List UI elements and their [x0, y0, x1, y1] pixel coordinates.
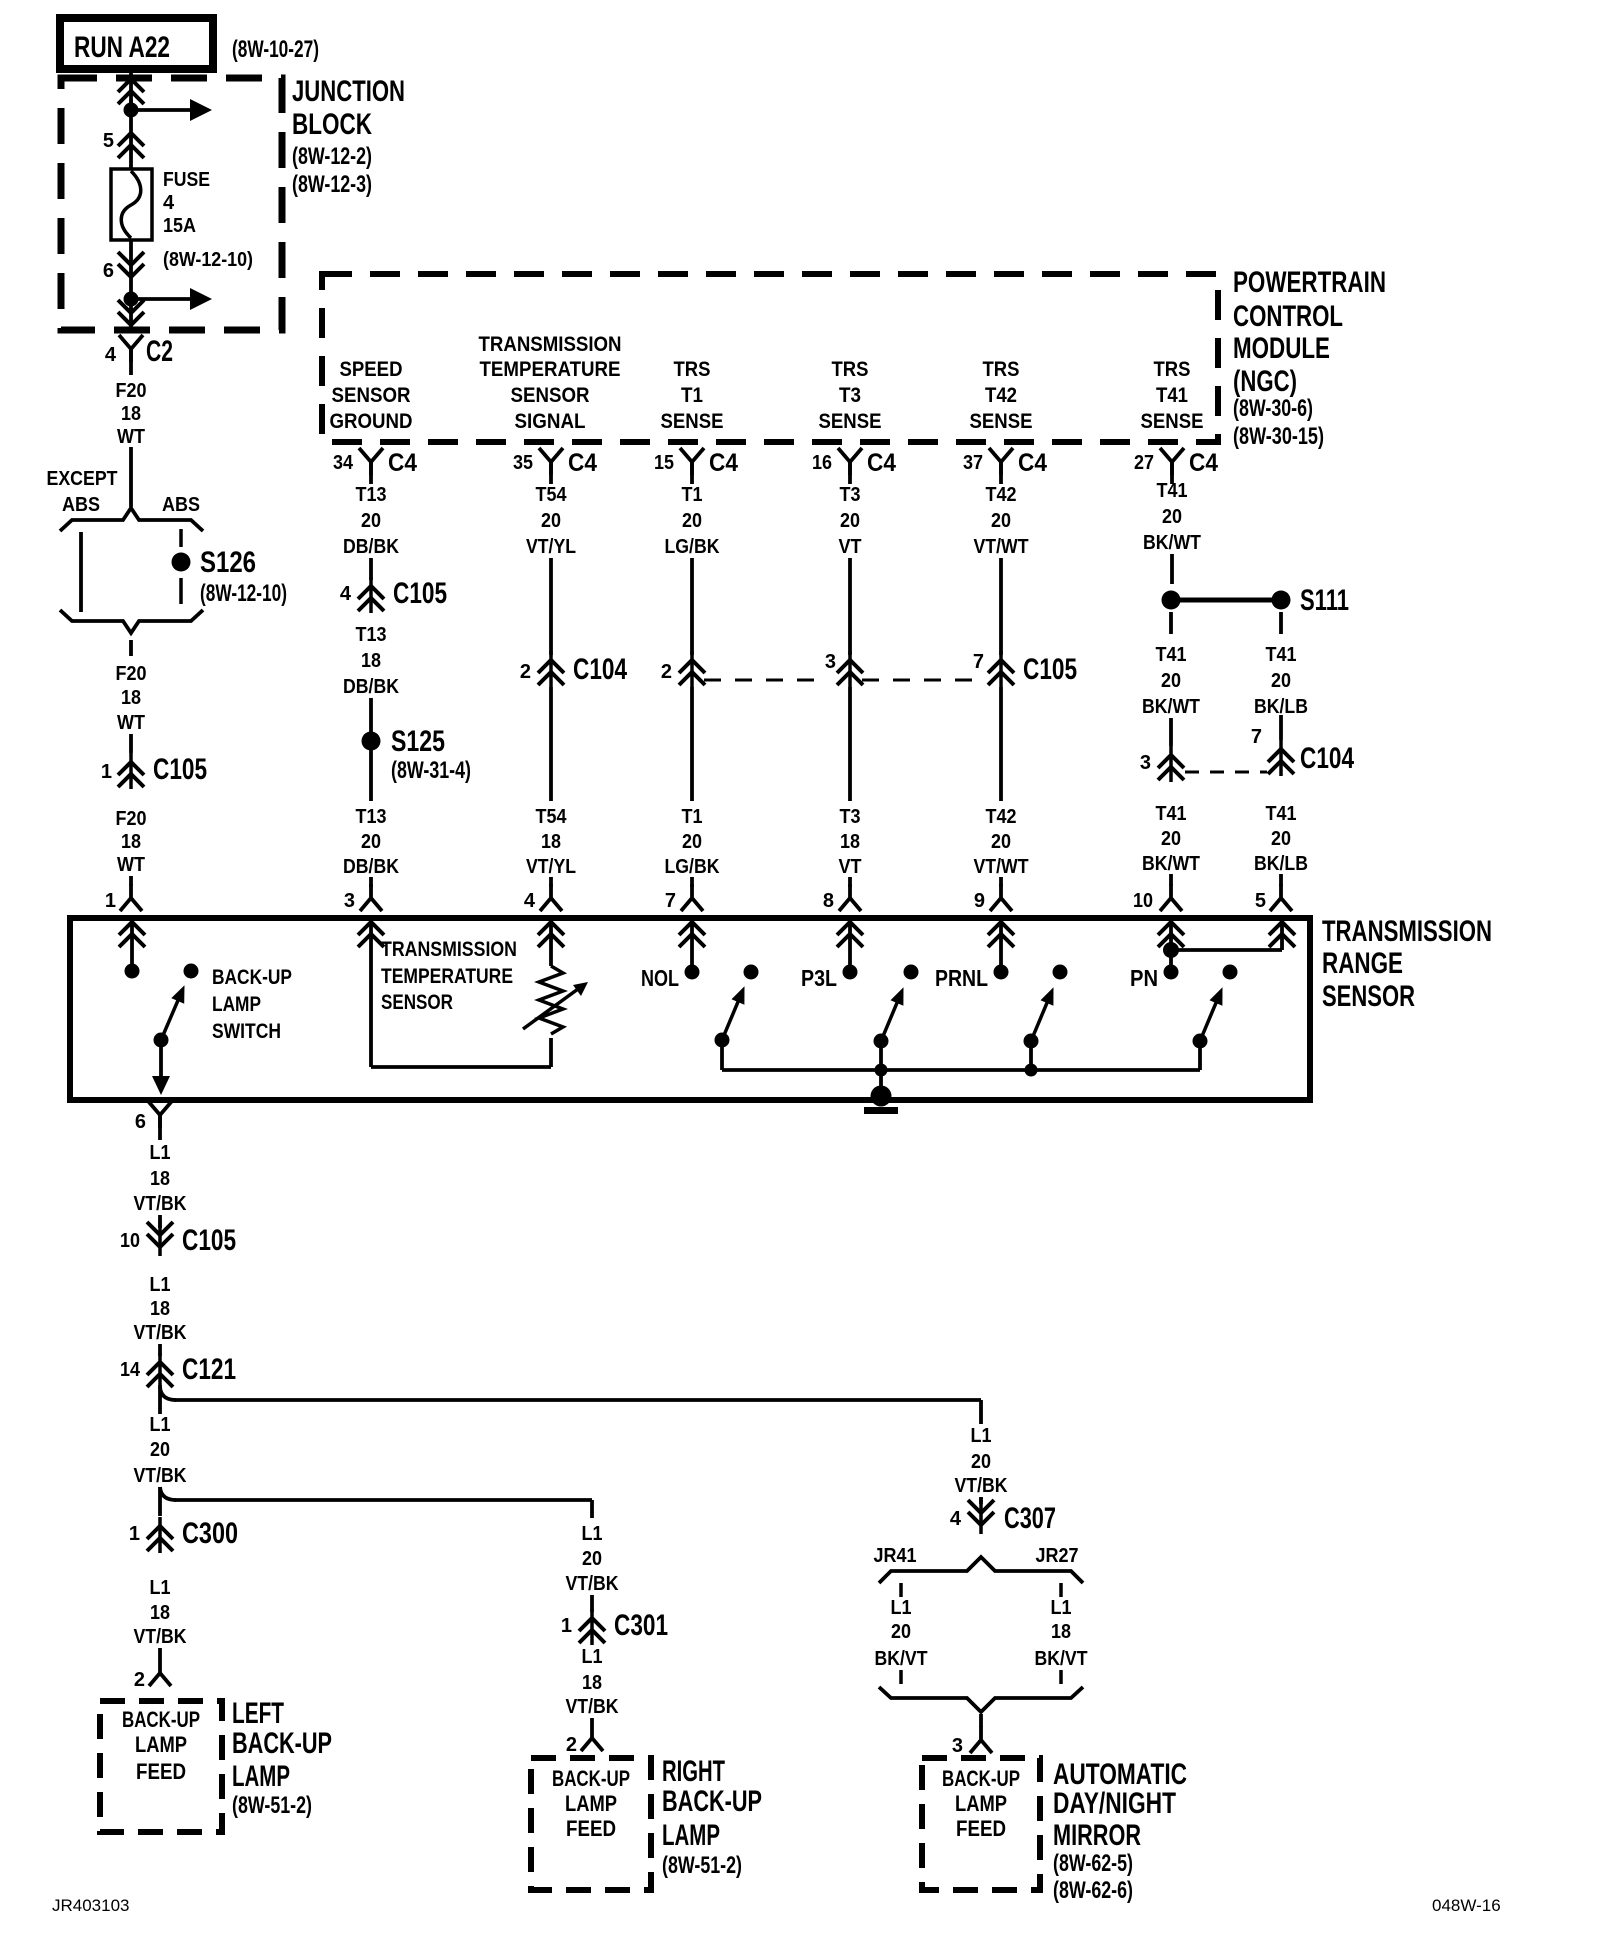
svg-text:VT/BK: VT/BK — [566, 1573, 619, 1595]
svg-text:C4: C4 — [1018, 449, 1047, 477]
svg-text:VT/BK: VT/BK — [134, 1626, 187, 1648]
svg-text:VT: VT — [839, 856, 862, 878]
svg-text:20: 20 — [582, 1548, 602, 1570]
svg-text:F20: F20 — [116, 808, 147, 830]
pin 3 chevrons inside — [358, 922, 384, 947]
svg-text:TRANSMISSION: TRANSMISSION — [1322, 915, 1492, 948]
svg-text:8: 8 — [823, 890, 834, 912]
svg-text:4: 4 — [163, 192, 175, 214]
svg-text:T1: T1 — [681, 384, 703, 407]
svg-text:S126: S126 — [200, 546, 256, 579]
node rail junction 2 — [1025, 1064, 1038, 1077]
svg-text:C4: C4 — [709, 449, 738, 477]
wire JR27 dashed — [1059, 1583, 1063, 1597]
svg-text:7: 7 — [665, 890, 676, 912]
dashed connector link C104 row — [1185, 771, 1267, 774]
svg-text:(8W-12-10): (8W-12-10) — [200, 580, 287, 607]
svg-text:(8W-31-4): (8W-31-4) — [391, 757, 471, 784]
svg-text:JR41: JR41 — [874, 1545, 917, 1567]
svg-text:TRS: TRS — [983, 358, 1020, 381]
node back-up lamp switch contact — [125, 964, 140, 979]
svg-text:C4: C4 — [867, 449, 896, 477]
wire except-abs branch — [79, 532, 83, 612]
node bus junction top — [124, 103, 139, 118]
svg-text:3: 3 — [344, 890, 355, 912]
svg-text:9: 9 — [974, 890, 985, 912]
svg-text:TEMPERATURE: TEMPERATURE — [480, 358, 621, 381]
svg-text:(8W-12-2): (8W-12-2) — [292, 143, 372, 170]
svg-text:5: 5 — [1255, 890, 1266, 912]
svg-text:T54: T54 — [536, 806, 568, 828]
svg-text:SENSOR: SENSOR — [381, 991, 453, 1014]
svg-text:20: 20 — [1161, 670, 1181, 692]
svg-text:L1: L1 — [150, 1577, 171, 1599]
svg-text:20: 20 — [1162, 506, 1182, 528]
powertrain control module dashed box — [322, 274, 1218, 442]
pin 10 chevrons inside — [1158, 922, 1184, 947]
node PN branch junction — [1163, 942, 1179, 958]
splice S111 — [1162, 591, 1181, 610]
svg-text:C307: C307 — [1004, 1502, 1056, 1535]
wire down from C121 — [158, 1385, 162, 1414]
svg-text:C105: C105 — [1023, 653, 1077, 686]
split brace JR41/JR27 — [879, 1557, 1083, 1583]
svg-text:FEED: FEED — [566, 1816, 616, 1841]
svg-text:BK/VT: BK/VT — [875, 1648, 928, 1670]
svg-text:SENSE: SENSE — [661, 410, 724, 433]
svg-text:DB/BK: DB/BK — [343, 676, 399, 698]
svg-text:VT/YL: VT/YL — [526, 536, 576, 558]
wire JR41 dashed — [899, 1583, 903, 1597]
svg-text:CONTROL: CONTROL — [1233, 300, 1343, 333]
svg-text:1: 1 — [129, 1523, 140, 1545]
svg-text:C105: C105 — [182, 1224, 236, 1257]
svg-text:15: 15 — [654, 452, 674, 474]
svg-text:20: 20 — [361, 510, 381, 532]
wire corner into C301 column — [590, 1500, 594, 1518]
svg-text:5: 5 — [103, 130, 114, 152]
svg-text:VT/BK: VT/BK — [134, 1465, 187, 1487]
svg-text:P3L: P3L — [801, 965, 837, 991]
svg-text:T41: T41 — [1266, 803, 1297, 825]
svg-text:2: 2 — [134, 1669, 145, 1691]
merge brace — [60, 610, 203, 633]
switch PRNL — [1053, 965, 1068, 980]
svg-text:LAMP: LAMP — [135, 1732, 187, 1757]
wire JR27 dashed 2 — [1059, 1670, 1063, 1684]
svg-text:18: 18 — [582, 1672, 602, 1694]
svg-text:L1: L1 — [150, 1414, 171, 1436]
svg-text:GROUND: GROUND — [330, 410, 413, 433]
svg-text:T41: T41 — [1156, 384, 1188, 407]
junction block dashed box — [61, 78, 282, 330]
svg-text:WT: WT — [117, 712, 145, 734]
svg-text:SENSOR: SENSOR — [511, 384, 590, 407]
node PRNL contact — [994, 965, 1009, 980]
svg-text:T41: T41 — [1156, 803, 1187, 825]
svg-text:T13: T13 — [356, 484, 387, 506]
svg-text:BK/VT: BK/VT — [1035, 1648, 1088, 1670]
pin 5 arrow up into bus — [118, 79, 144, 104]
svg-text:TEMPERATURE: TEMPERATURE — [381, 965, 513, 988]
svg-text:C301: C301 — [614, 1609, 668, 1642]
svg-text:L1: L1 — [582, 1523, 603, 1545]
svg-text:LAMP: LAMP — [662, 1819, 720, 1852]
svg-text:SENSOR: SENSOR — [332, 384, 411, 407]
transmission range sensor box — [70, 918, 1310, 1100]
ground — [879, 1070, 883, 1097]
svg-text:FUSE: FUSE — [163, 169, 210, 191]
svg-text:T42: T42 — [985, 384, 1017, 407]
switch common rail — [722, 1068, 1200, 1072]
wire below merge — [129, 640, 133, 656]
wire branch to pin 5 — [1171, 948, 1282, 952]
svg-text:T42: T42 — [986, 484, 1017, 506]
svg-text:14: 14 — [120, 1359, 141, 1381]
svg-text:C104: C104 — [573, 653, 627, 686]
pin 1 chevrons inside — [119, 922, 145, 947]
svg-text:(8W-51-2): (8W-51-2) — [662, 1852, 742, 1879]
svg-text:T3: T3 — [839, 384, 861, 407]
svg-text:20: 20 — [991, 510, 1011, 532]
left back-up lamp feed dashed box — [100, 1701, 222, 1832]
svg-text:JR403103: JR403103 — [52, 1896, 130, 1915]
svg-text:FEED: FEED — [136, 1759, 186, 1784]
svg-text:2: 2 — [661, 661, 672, 683]
svg-text:LG/BK: LG/BK — [665, 856, 720, 878]
svg-text:L1: L1 — [150, 1142, 171, 1164]
svg-text:T1: T1 — [682, 806, 703, 828]
svg-text:LAMP: LAMP — [955, 1791, 1007, 1816]
svg-text:(8W-10-27): (8W-10-27) — [232, 36, 319, 63]
wire from RUN A22 into junction block — [129, 69, 133, 110]
svg-text:20: 20 — [150, 1439, 170, 1461]
svg-text:(8W-62-5): (8W-62-5) — [1053, 1850, 1133, 1877]
svg-text:C121: C121 — [182, 1353, 236, 1386]
svg-text:SENSE: SENSE — [1141, 410, 1204, 433]
svg-text:20: 20 — [682, 510, 702, 532]
back-up lamp switch — [184, 964, 199, 979]
svg-text:T41: T41 — [1266, 644, 1297, 666]
svg-text:T1: T1 — [682, 484, 703, 506]
svg-text:20: 20 — [1271, 828, 1291, 850]
svg-text:16: 16 — [812, 452, 832, 474]
label RUN A22 box — [60, 18, 213, 69]
svg-text:10: 10 — [120, 1230, 140, 1252]
svg-text:NOL: NOL — [641, 965, 679, 991]
svg-text:PRNL: PRNL — [935, 965, 988, 991]
svg-text:6: 6 — [103, 260, 114, 282]
svg-text:20: 20 — [1161, 828, 1181, 850]
svg-text:(8W-12-3): (8W-12-3) — [292, 171, 372, 198]
svg-text:VT/BK: VT/BK — [134, 1193, 187, 1215]
svg-text:(8W-51-2): (8W-51-2) — [232, 1792, 312, 1819]
svg-text:35: 35 — [513, 452, 533, 474]
dashed connector link C104-C105 row — [704, 679, 826, 682]
svg-text:(8W-12-10): (8W-12-10) — [163, 249, 253, 271]
pin 3 into mirror — [979, 1714, 983, 1727]
svg-text:VT/YL: VT/YL — [526, 856, 576, 878]
svg-text:BK/LB: BK/LB — [1254, 696, 1308, 718]
pin 4 chevrons inside — [538, 922, 564, 947]
svg-text:C4: C4 — [568, 449, 597, 477]
svg-text:18: 18 — [121, 403, 141, 425]
fuse 4 15A — [111, 169, 152, 240]
svg-text:18: 18 — [361, 650, 381, 672]
svg-text:BK/WT: BK/WT — [1143, 532, 1201, 554]
wire down to ABS split — [129, 447, 133, 507]
svg-text:18: 18 — [150, 1168, 170, 1190]
svg-text:SENSE: SENSE — [819, 410, 882, 433]
pin 5 chevrons inside — [1269, 922, 1295, 947]
svg-text:3: 3 — [1140, 752, 1151, 774]
wire JR41 dashed 2 — [899, 1670, 903, 1684]
svg-text:MIRROR: MIRROR — [1053, 1819, 1141, 1852]
svg-text:WT: WT — [117, 854, 145, 876]
svg-text:20: 20 — [1271, 670, 1291, 692]
svg-text:(8W-30-6): (8W-30-6) — [1233, 395, 1313, 422]
svg-text:WT: WT — [117, 426, 145, 448]
svg-text:BK/WT: BK/WT — [1142, 853, 1200, 875]
wire branch to C307 with knee — [160, 1387, 176, 1400]
svg-text:SENSE: SENSE — [970, 410, 1033, 433]
svg-text:T42: T42 — [986, 806, 1017, 828]
svg-text:(8W-30-15): (8W-30-15) — [1233, 423, 1324, 450]
arrow feed right bottom — [131, 297, 190, 301]
svg-text:4: 4 — [950, 1508, 962, 1530]
svg-text:18: 18 — [121, 831, 141, 853]
svg-text:T3: T3 — [840, 806, 861, 828]
svg-text:18: 18 — [840, 831, 860, 853]
svg-text:LAMP: LAMP — [232, 1760, 290, 1793]
svg-text:RANGE: RANGE — [1322, 947, 1403, 980]
svg-text:BACK-UP: BACK-UP — [122, 1707, 200, 1732]
svg-text:DB/BK: DB/BK — [343, 536, 399, 558]
svg-text:C4: C4 — [388, 449, 417, 477]
svg-text:VT/WT: VT/WT — [974, 856, 1029, 878]
svg-text:(NGC): (NGC) — [1233, 365, 1297, 398]
svg-text:BACK-UP: BACK-UP — [212, 966, 292, 989]
svg-text:SENSOR: SENSOR — [1322, 980, 1415, 1013]
svg-text:VT/WT: VT/WT — [974, 536, 1029, 558]
svg-text:F20: F20 — [116, 663, 147, 685]
svg-text:BK/WT: BK/WT — [1142, 696, 1200, 718]
wire corner into C307 column — [979, 1400, 983, 1424]
svg-text:3: 3 — [825, 651, 836, 673]
node bus junction bottom — [124, 292, 139, 307]
transmission temperature sensor outline — [369, 921, 373, 1067]
svg-text:3: 3 — [952, 1735, 963, 1757]
svg-text:LAMP: LAMP — [565, 1791, 617, 1816]
wire branch to C301 with knee — [160, 1487, 176, 1500]
svg-text:VT/BK: VT/BK — [566, 1696, 619, 1718]
svg-text:ABS: ABS — [162, 494, 200, 516]
svg-text:1: 1 — [101, 761, 112, 783]
svg-text:SIGNAL: SIGNAL — [515, 410, 586, 433]
pin 7 chevrons inside — [679, 922, 705, 947]
svg-text:F20: F20 — [116, 380, 147, 402]
svg-text:VT/BK: VT/BK — [134, 1322, 187, 1344]
svg-text:34: 34 — [333, 452, 354, 474]
svg-text:C300: C300 — [182, 1517, 238, 1550]
split brace — [60, 508, 203, 531]
svg-text:2: 2 — [520, 661, 531, 683]
svg-text:TRANSMISSION: TRANSMISSION — [381, 938, 517, 961]
node P3L contact — [843, 965, 858, 980]
svg-text:LAMP: LAMP — [212, 993, 261, 1016]
svg-text:048W-16: 048W-16 — [1432, 1896, 1501, 1915]
svg-text:C105: C105 — [153, 753, 207, 786]
svg-text:EXCEPT: EXCEPT — [47, 468, 118, 490]
temperature sensor resistor — [539, 966, 563, 1034]
svg-text:DB/BK: DB/BK — [343, 856, 399, 878]
svg-text:2: 2 — [566, 1734, 577, 1756]
svg-text:TRS: TRS — [832, 358, 869, 381]
svg-text:20: 20 — [840, 510, 860, 532]
mirror back-up lamp feed dashed box — [922, 1758, 1040, 1890]
svg-text:18: 18 — [1051, 1621, 1071, 1643]
svg-text:ABS: ABS — [62, 494, 100, 516]
svg-text:7: 7 — [1251, 726, 1262, 748]
svg-text:L1: L1 — [971, 1425, 992, 1447]
arrow feed right top — [131, 108, 190, 112]
svg-text:RIGHT: RIGHT — [662, 1755, 725, 1788]
svg-text:C104: C104 — [1300, 742, 1354, 775]
svg-text:18: 18 — [121, 687, 141, 709]
svg-text:20: 20 — [991, 831, 1011, 853]
merge brace — [879, 1687, 1083, 1712]
right back-up lamp feed dashed box — [531, 1758, 651, 1890]
splice S125 — [362, 732, 381, 751]
svg-text:C2: C2 — [146, 335, 173, 368]
svg-text:BACK-UP: BACK-UP — [232, 1727, 332, 1760]
svg-text:T54: T54 — [536, 484, 568, 506]
svg-text:4: 4 — [340, 583, 352, 605]
svg-text:20: 20 — [682, 831, 702, 853]
svg-text:SPEED: SPEED — [340, 358, 403, 381]
svg-text:L1: L1 — [1051, 1597, 1072, 1619]
svg-text:T41: T41 — [1157, 480, 1188, 502]
svg-text:T41: T41 — [1156, 644, 1187, 666]
svg-text:7: 7 — [973, 651, 984, 673]
svg-text:BLOCK: BLOCK — [292, 108, 372, 141]
svg-text:T13: T13 — [356, 624, 387, 646]
svg-text:FEED: FEED — [956, 1816, 1006, 1841]
svg-text:1: 1 — [105, 890, 116, 912]
svg-text:MODULE: MODULE — [1233, 332, 1330, 365]
svg-text:4: 4 — [524, 890, 536, 912]
svg-text:37: 37 — [963, 452, 983, 474]
svg-text:TRS: TRS — [1154, 358, 1191, 381]
svg-text:BK/LB: BK/LB — [1254, 853, 1308, 875]
svg-text:6: 6 — [135, 1111, 146, 1133]
svg-text:18: 18 — [541, 831, 561, 853]
switch PN — [1223, 965, 1238, 980]
svg-text:15A: 15A — [163, 215, 196, 237]
svg-text:S111: S111 — [1300, 584, 1349, 617]
wire abs branch dashed lower — [179, 578, 183, 604]
svg-text:C105: C105 — [393, 577, 447, 610]
svg-text:1: 1 — [561, 1615, 572, 1637]
svg-text:20: 20 — [541, 510, 561, 532]
svg-text:(8W-62-6): (8W-62-6) — [1053, 1877, 1133, 1904]
svg-text:JUNCTION: JUNCTION — [292, 75, 405, 108]
svg-text:18: 18 — [150, 1298, 170, 1320]
svg-text:S125: S125 — [391, 725, 445, 758]
svg-text:4: 4 — [105, 344, 117, 366]
pin 8 chevrons inside — [837, 922, 863, 947]
svg-text:VT/BK: VT/BK — [955, 1475, 1008, 1497]
svg-text:LG/BK: LG/BK — [665, 536, 720, 558]
svg-text:L1: L1 — [582, 1646, 603, 1668]
pin 9 chevrons inside — [988, 922, 1014, 947]
svg-text:20: 20 — [891, 1621, 911, 1643]
svg-text:BACK-UP: BACK-UP — [942, 1766, 1020, 1791]
svg-text:POWERTRAIN: POWERTRAIN — [1233, 266, 1386, 299]
temperature sensor arrow — [523, 989, 578, 1029]
svg-text:BACK-UP: BACK-UP — [662, 1785, 762, 1818]
svg-text:T13: T13 — [356, 806, 387, 828]
switch NOL — [744, 965, 759, 980]
node rail junction 1 — [875, 1064, 888, 1077]
svg-text:20: 20 — [361, 831, 381, 853]
svg-text:LEFT: LEFT — [232, 1697, 284, 1730]
node PN contact — [1164, 965, 1179, 980]
node NOL contact — [685, 965, 700, 980]
svg-text:VT: VT — [839, 536, 862, 558]
svg-text:PN: PN — [1130, 965, 1158, 991]
splice S126 — [172, 553, 191, 572]
svg-text:TRANSMISSION: TRANSMISSION — [479, 333, 622, 356]
svg-text:TRS: TRS — [674, 358, 711, 381]
pin exit arrow down — [118, 300, 144, 325]
svg-text:L1: L1 — [891, 1597, 912, 1619]
svg-text:BACK-UP: BACK-UP — [552, 1766, 630, 1791]
svg-text:SWITCH: SWITCH — [212, 1020, 281, 1043]
svg-text:18: 18 — [150, 1602, 170, 1624]
svg-text:DAY/NIGHT: DAY/NIGHT — [1053, 1787, 1176, 1820]
svg-text:10: 10 — [1133, 890, 1153, 912]
svg-text:JR27: JR27 — [1036, 1545, 1079, 1567]
svg-text:T3: T3 — [840, 484, 861, 506]
svg-text:27: 27 — [1134, 452, 1154, 474]
svg-text:L1: L1 — [150, 1274, 171, 1296]
switch P3L — [904, 965, 919, 980]
wire abs branch dashed — [179, 529, 183, 547]
svg-text:20: 20 — [971, 1451, 991, 1473]
svg-text:RUN A22: RUN A22 — [74, 31, 170, 64]
svg-text:C4: C4 — [1189, 449, 1218, 477]
